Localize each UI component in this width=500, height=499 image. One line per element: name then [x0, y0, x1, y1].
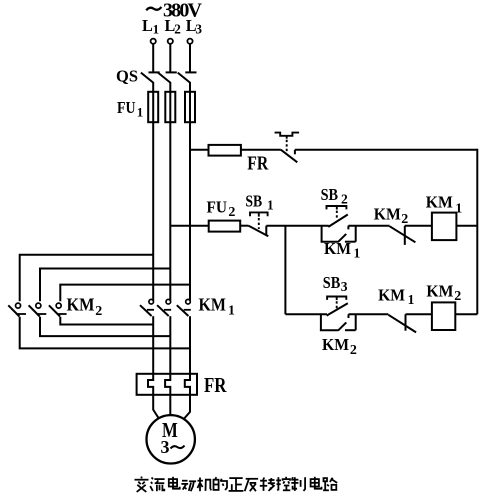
switch QS pole 1 blade: [141, 73, 153, 83]
svg-text:FR: FR: [204, 373, 227, 397]
fuse FU1 element 1: [148, 92, 158, 122]
thermal relay FR heater box: [137, 374, 197, 395]
wire through fuse FU1-2: [169, 92, 171, 122]
FR contact right terminal stub: [294, 150, 296, 155]
svg-text:1: 1: [408, 292, 415, 307]
SB3 actuator: [327, 297, 346, 300]
caption char 流: [152, 478, 154, 480]
contactor KM1 main pole 1 moving blade: [140, 305, 152, 316]
pushbutton SB1 NC blade: [249, 226, 269, 237]
wire through fuse FU1-3: [189, 92, 191, 122]
svg-text:FU: FU: [117, 98, 136, 117]
SB2 actuator: [327, 206, 347, 209]
KM2 NC right terminal bar: [404, 226, 406, 245]
caption char 机: [198, 480, 203, 482]
coil KM1: [432, 213, 457, 241]
KM1 self-hold loop bottom right: [345, 241, 356, 243]
caption char 交: [141, 477, 143, 479]
wire KM2 NC to coil KM1: [405, 225, 432, 227]
wire crossover top L2 to KM2 pole2: [40, 269, 170, 302]
svg-text:KM: KM: [426, 282, 453, 301]
interlock contact KM1 NC blade: [388, 315, 416, 333]
SB2 right terminal stub: [347, 226, 349, 230]
contactor KM1 main pole 3 moving blade: [177, 305, 189, 316]
pushbutton SB2 NO blade: [328, 215, 348, 227]
wire fuse to FR contact: [240, 149, 281, 151]
wire SB2 to KM2 interlock: [348, 225, 389, 227]
contactor KM1 main pole 2 moving blade: [157, 305, 169, 316]
wire L3 to QS: [189, 44, 191, 72]
wire coil KM2 to right rail: [455, 313, 477, 315]
caption char 电: [311, 479, 319, 486]
caption char 制: [291, 477, 294, 479]
wire KM1 NC to coil KM2: [406, 313, 432, 315]
SB1 actuator dashed link: [258, 218, 260, 229]
svg-text:3: 3: [195, 22, 202, 37]
wire FR contact to right rail: [295, 149, 477, 151]
wire FR to motor phase 1: [153, 395, 159, 419]
contactor KM2 main pole 1 moving blade: [8, 305, 19, 316]
wire crossover bottom KM2 pole2 to L2 column: [40, 317, 170, 336]
coil KM2: [432, 302, 455, 330]
KM1 self-hold loop right: [355, 226, 357, 242]
contactor KM1 main pole 3 fixed contact circle: [186, 299, 191, 304]
wire crossover top L1 to KM2 pole1: [20, 255, 154, 302]
svg-text:2: 2: [228, 205, 235, 220]
svg-text:3: 3: [341, 279, 348, 294]
wire L2 tap to FU2: [170, 225, 208, 227]
wire KM1 pole 1 to FR heater: [152, 316, 154, 374]
contactor KM1 main pole 1 fixed contact circle: [149, 299, 154, 304]
wire QS pole 2 to fuse FU1: [169, 82, 171, 92]
contactor KM2 main pole 2 fixed contact circle: [36, 303, 41, 308]
caption text 交流电动机的正反转控制电路: [135, 477, 338, 492]
contactor KM1 main pole 2 fixed contact circle: [166, 299, 171, 304]
KM1 NC right terminal bar: [405, 314, 407, 330]
caption char 正: [229, 477, 242, 479]
switch QS pole 1 contact bar: [149, 71, 160, 73]
right rail: [476, 149, 478, 315]
svg-text:FR: FR: [247, 153, 268, 175]
svg-text:KM: KM: [378, 285, 405, 304]
wire FR to motor phase 2: [169, 395, 171, 415]
wire KM1 pole 3 to FR heater: [189, 316, 191, 374]
wire junction down to rung 2: [284, 226, 286, 315]
terminal L2: [168, 39, 173, 44]
KM2 self-hold loop bottom right: [345, 329, 356, 331]
svg-text:L: L: [142, 16, 153, 35]
svg-text:1: 1: [267, 198, 274, 213]
thermal relay FR heater element 1: [148, 374, 153, 395]
svg-text:2: 2: [95, 304, 102, 319]
svg-text:SB: SB: [321, 185, 339, 204]
wire L3 tap to control fuse: [190, 149, 209, 151]
fuse FU2: [209, 221, 241, 232]
switch QS pole 3 blade: [178, 73, 190, 83]
wire QS pole 3 to fuse FU1: [189, 82, 191, 92]
terminal L1: [151, 39, 156, 44]
svg-text:KM: KM: [324, 239, 351, 258]
wire QS pole 1 to fuse FU1: [152, 82, 154, 92]
SB3 right terminal stub: [348, 314, 350, 318]
svg-text:KM: KM: [374, 204, 401, 223]
SB3 actuator dashed link: [336, 301, 338, 310]
svg-text:SB: SB: [323, 273, 341, 292]
wire fuse FU1-1 to contactor KM1: [152, 122, 154, 301]
svg-text:KM: KM: [67, 295, 95, 315]
switch QS pole 2 contact bar: [166, 71, 177, 73]
svg-text:1: 1: [354, 245, 361, 260]
pushbutton SB3 NO blade: [327, 303, 348, 315]
wire through fuse FU1-1: [152, 92, 154, 122]
wire SB1 to SB2, junction to rung2: [266, 225, 329, 227]
FR actuator dashed link: [286, 140, 288, 152]
SB2 actuator dashed link: [336, 211, 338, 220]
KM2 self-hold loop bottom left: [320, 329, 338, 331]
wire fuse FU1-2 to contactor KM1: [169, 122, 171, 301]
svg-text:1: 1: [137, 105, 144, 120]
svg-text:FU: FU: [207, 198, 228, 217]
fuse (control, upper leg): [209, 145, 241, 156]
contactor KM2 main pole 1 fixed contact circle: [16, 303, 21, 308]
caption char 控: [277, 477, 279, 490]
svg-text:QS: QS: [116, 67, 138, 86]
wire crossover top L3 to KM2 pole3: [60, 285, 190, 302]
svg-text:1: 1: [455, 201, 462, 216]
caption char 的: [215, 477, 216, 479]
contactor KM2 pole 2 linkage tick: [37, 313, 47, 315]
caption char 路: [324, 478, 328, 481]
auxiliary contact KM2 NO blade: [338, 322, 346, 330]
contactor KM2 pole 3 linkage tick: [57, 313, 67, 315]
wire L2 to QS: [169, 44, 171, 72]
svg-text:2: 2: [401, 212, 408, 227]
contactor KM2 main pole 2 moving blade: [29, 305, 40, 316]
KM2 self-hold loop left: [320, 314, 322, 330]
svg-text:1: 1: [228, 303, 235, 318]
KM1 self-hold loop left: [321, 226, 323, 242]
caption char 电: [169, 479, 177, 486]
thermal relay FR heater element 3: [185, 374, 190, 395]
switch QS pole 3 contact bar: [185, 71, 196, 73]
SB1 actuator: [250, 212, 268, 216]
wire crossover bottom KM2 pole3 to L1 column: [60, 317, 153, 325]
svg-text:2: 2: [174, 22, 181, 37]
svg-text:2: 2: [341, 192, 348, 207]
wire fuse FU1-3 to contactor KM1: [189, 122, 191, 301]
wire SB3 to KM1 interlock: [349, 313, 389, 315]
KM2 self-hold loop right: [355, 314, 357, 330]
auxiliary contact KM1 NO blade: [338, 234, 346, 242]
svg-text:SB: SB: [245, 192, 262, 211]
contactor KM2 main pole 3 moving blade: [49, 305, 60, 316]
switch QS pole 2 blade: [158, 73, 170, 83]
svg-text:2: 2: [350, 343, 357, 358]
contactor KM2 pole 1 linkage tick: [16, 313, 26, 315]
contactor KM1 pole 2 linkage tick: [164, 309, 171, 311]
interlock contact KM2 NC blade: [390, 226, 416, 242]
svg-text:2: 2: [454, 289, 461, 304]
wire crossover bottom KM2 pole1 to L3 column: [20, 317, 190, 349]
thermal relay FR heater element 2: [165, 374, 170, 395]
wire FU2 to SB1: [240, 225, 248, 227]
contactor KM1 pole 1 linkage tick: [147, 309, 154, 311]
label ~380V supply: [146, 7, 161, 10]
wire coil KM1 to right rail: [456, 225, 477, 227]
SB1 right terminal bar: [265, 226, 267, 236]
caption char 动: [182, 480, 188, 482]
fuse FU1 element 2: [165, 92, 175, 122]
thermal relay FR NC contact blade: [281, 150, 298, 163]
caption char 反: [246, 478, 258, 480]
caption char 转: [263, 478, 264, 481]
contactor KM2 main pole 3 fixed contact circle: [56, 303, 61, 308]
FR thermal actuator symbol: [275, 133, 300, 136]
wire junction to SB3: [285, 313, 327, 315]
wire L1 to QS: [152, 44, 154, 72]
wire KM1 pole 2 to FR heater: [169, 316, 171, 374]
terminal L3: [187, 39, 192, 44]
wire FR to motor phase 3: [184, 395, 190, 419]
svg-text:1: 1: [153, 22, 160, 37]
svg-text:KM: KM: [426, 193, 453, 212]
svg-text:3: 3: [161, 437, 170, 457]
svg-text:KM: KM: [322, 335, 349, 354]
svg-text:KM: KM: [199, 295, 227, 315]
KM1 self-hold loop bottom left: [321, 241, 338, 243]
fuse FU1 element 3: [185, 92, 195, 122]
motor M circle: [147, 415, 195, 463]
contactor KM1 pole 3 linkage tick: [184, 309, 191, 311]
